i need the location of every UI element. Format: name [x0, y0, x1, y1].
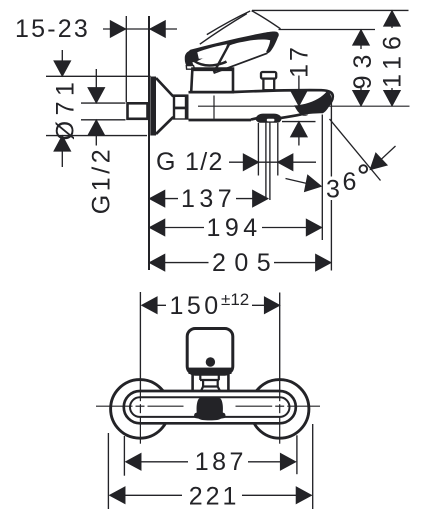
svg-text:150: 150	[170, 292, 222, 320]
svg-text:194: 194	[207, 214, 262, 242]
svg-text:15-23: 15-23	[15, 15, 90, 43]
svg-text:G1/2: G1/2	[88, 146, 116, 215]
svg-text:93: 93	[349, 48, 377, 90]
svg-text:137: 137	[181, 185, 236, 213]
svg-text:±12: ±12	[221, 290, 249, 309]
svg-text:116: 116	[379, 30, 407, 88]
svg-text:Ø71: Ø71	[52, 77, 80, 141]
svg-text:221: 221	[189, 482, 240, 510]
svg-text:205: 205	[212, 249, 279, 277]
svg-text:6: 6	[342, 168, 358, 196]
svg-text:3: 3	[326, 176, 342, 204]
svg-text:187: 187	[195, 448, 247, 476]
svg-text:17: 17	[285, 44, 313, 78]
svg-text:G 1/2: G 1/2	[156, 148, 224, 176]
